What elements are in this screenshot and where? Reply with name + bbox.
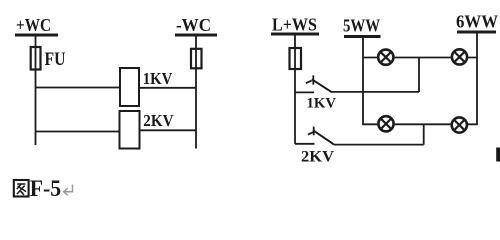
wire coil1 right: [139, 87, 196, 89]
fuse FU: [31, 47, 41, 70]
svg-text:1KV: 1KV: [307, 96, 337, 112]
wire coil2 right: [140, 129, 197, 131]
wire L+WS vertical: [294, 34, 296, 144]
wire junction drop upper: [418, 58, 420, 92]
contact 1KV barb: [306, 81, 312, 84]
contact 2KV blade: [313, 130, 334, 144]
fuse under -WC: [191, 49, 202, 69]
wire 5WW vertical and lower lamp row: [363, 37, 477, 125]
lamp HL2: [452, 49, 467, 64]
svg-text:2KV: 2KV: [143, 111, 174, 130]
contact 1KV tick: [312, 75, 314, 84]
contact 1KV stub: [295, 91, 314, 93]
right edge mark: [496, 148, 500, 162]
wire switch1 to junction: [332, 91, 420, 93]
wire junction drop lower: [423, 124, 425, 144]
wire -WC vertical: [195, 35, 197, 149]
wire switch2 to junction: [334, 144, 424, 146]
busbar 5WW: [344, 35, 381, 38]
wire 6WW vertical: [476, 32, 478, 125]
busbar +WC: [15, 34, 58, 37]
wire coil2 left: [35, 131, 120, 133]
svg-text:6WW: 6WW: [456, 12, 498, 32]
wire coil1 left: [35, 87, 120, 89]
contact 2KV stub: [295, 143, 315, 145]
wire 5WW upper branch: [363, 57, 477, 59]
busbar 6WW: [457, 31, 496, 34]
contact 1KV blade: [312, 79, 332, 92]
busbar -WC: [175, 34, 217, 37]
svg-text:1KV: 1KV: [143, 69, 173, 88]
svg-text:FU: FU: [45, 49, 66, 70]
relay coil 1KV: [120, 68, 139, 106]
caption return mark: [64, 185, 73, 196]
lamp HL1: [378, 50, 393, 65]
relay coil 2KV: [120, 111, 140, 149]
caption glyph 图: [14, 180, 29, 197]
svg-text:-WC: -WC: [176, 15, 211, 35]
wire +WC vertical: [35, 35, 37, 145]
contact 2KV barb: [308, 132, 313, 134]
svg-text:5WW: 5WW: [343, 16, 380, 36]
busbar L+WS: [271, 33, 319, 36]
fuse under L+WS: [290, 48, 302, 69]
svg-text:+WC: +WC: [16, 15, 51, 35]
svg-text:L+WS: L+WS: [272, 15, 317, 35]
lamp HL3: [378, 116, 393, 131]
contact 2KV tick: [313, 127, 315, 136]
svg-text:2KV: 2KV: [301, 149, 334, 166]
lamp HL4: [452, 117, 467, 132]
svg-text:F-5: F-5: [30, 176, 61, 201]
